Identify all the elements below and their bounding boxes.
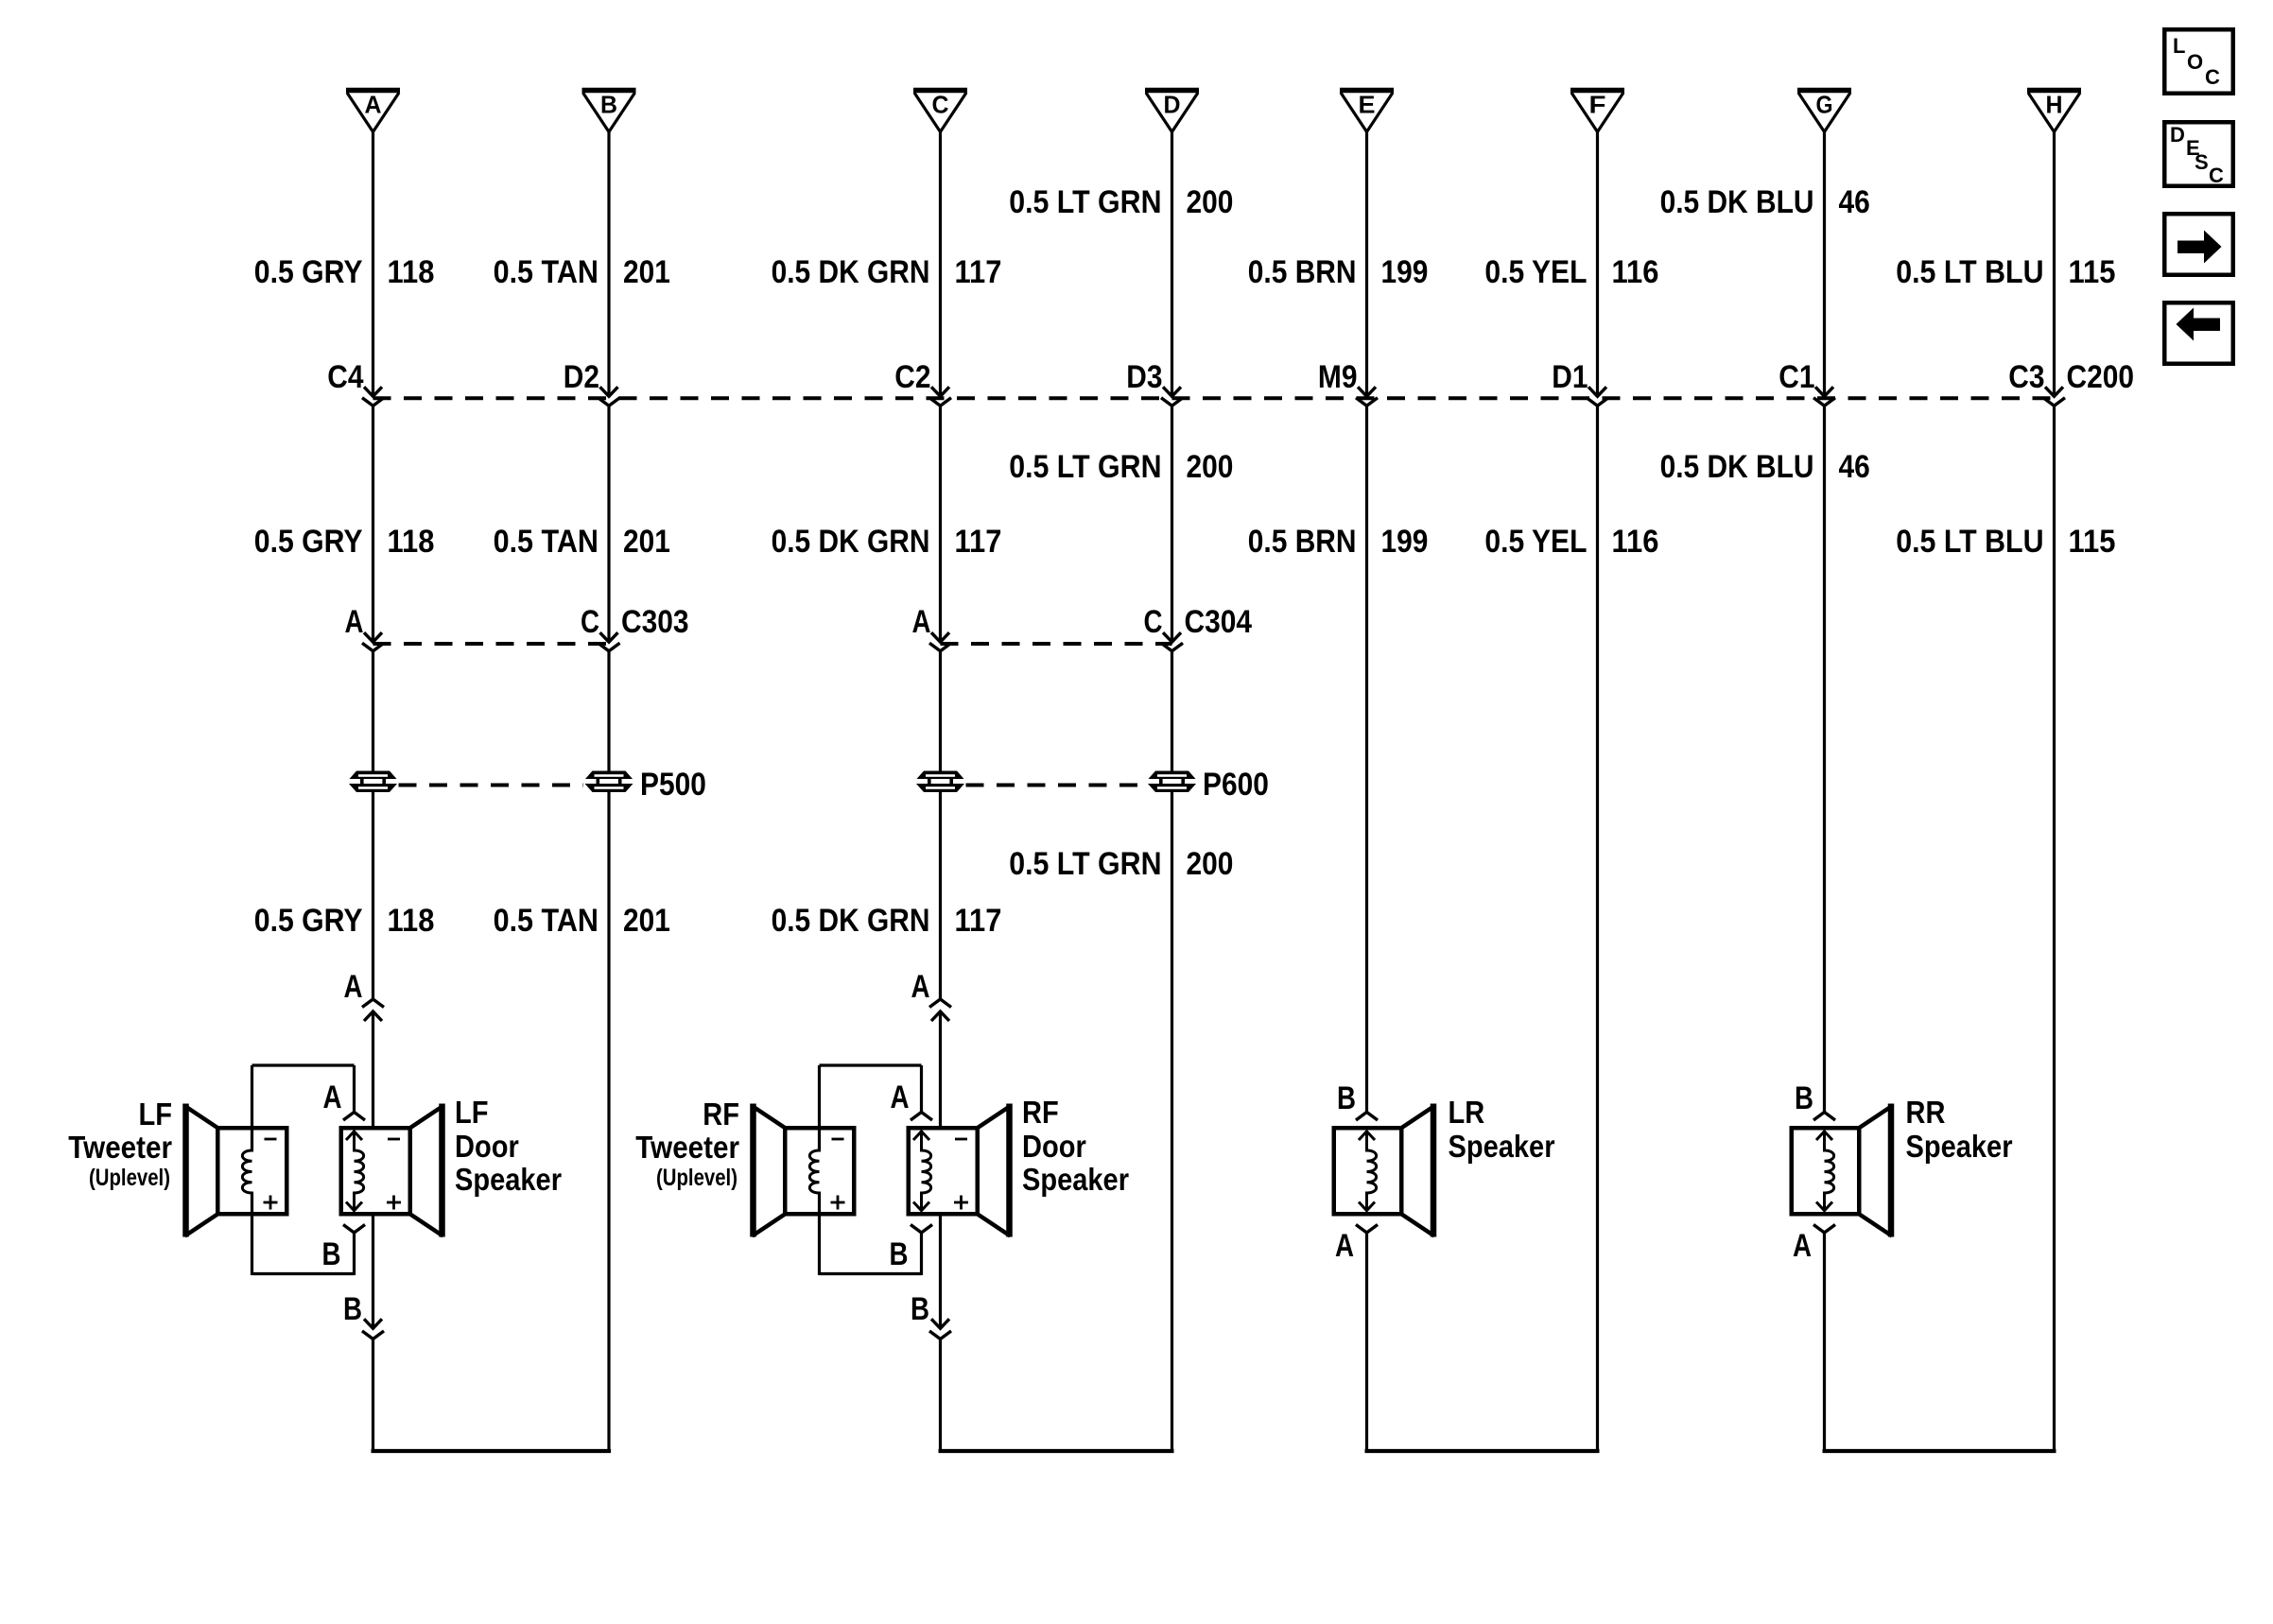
- svg-text:D1: D1: [1552, 359, 1588, 395]
- svg-text:B: B: [600, 91, 617, 119]
- wire RF main to bottom loop: [939, 1339, 942, 1454]
- svg-text:118: 118: [388, 903, 435, 939]
- connector chevron pin A at LF door speaker: [343, 1113, 365, 1121]
- wire H column segment C200 to bottom loop: [2053, 406, 2056, 1453]
- svg-text:A: A: [344, 969, 363, 1005]
- svg-text:A: A: [912, 604, 931, 640]
- svg-text:0.5 BRN: 0.5 BRN: [1248, 254, 1357, 290]
- polarity marks in RF tweeter: [832, 1138, 844, 1141]
- connector C304 dashed boundary line: [941, 642, 1172, 646]
- horn of LF tweeter: [185, 1106, 218, 1128]
- svg-text:201: 201: [623, 254, 670, 290]
- svg-text:LR: LR: [1449, 1095, 1485, 1130]
- grommet P500 on B column: [585, 771, 633, 793]
- svg-text:116: 116: [1612, 254, 1659, 290]
- svg-text:C304: C304: [1185, 604, 1253, 640]
- connector C200 dashed boundary line: [373, 396, 2055, 400]
- speaker LF tweeter box: [217, 1128, 286, 1214]
- svg-text:0.5 GRY: 0.5 GRY: [254, 254, 363, 290]
- wire RF tweeter loop bottom: [820, 1272, 922, 1275]
- svg-text:0.5 GRY: 0.5 GRY: [254, 903, 363, 939]
- svg-text:H: H: [2046, 91, 2063, 119]
- connector C200 terminal chevron on D column: [1161, 398, 1183, 406]
- svg-text:201: 201: [623, 903, 670, 939]
- polarity marks in RF door speaker: [955, 1138, 967, 1141]
- coil inside RF tweeter: [809, 1132, 819, 1212]
- connector chevron pin B at RR speaker: [1813, 1113, 1835, 1121]
- connector C30x terminal chevron on B column: [599, 643, 620, 651]
- wire A column segment grommet to inline connector A: [372, 792, 374, 999]
- connector chevron pin A at RR speaker: [1813, 1225, 1835, 1234]
- svg-text:F: F: [1589, 91, 1606, 119]
- svg-text:B: B: [343, 1291, 362, 1327]
- svg-text:RF: RF: [703, 1097, 739, 1132]
- wire C column upper segment: [939, 132, 942, 397]
- horn of RF door speaker: [978, 1106, 1011, 1128]
- svg-text:RR: RR: [1906, 1095, 1946, 1130]
- wire LF main to bottom loop: [372, 1339, 374, 1454]
- wire LF tweeter loop bottom stem: [353, 1233, 356, 1275]
- wire A column segment C200 to C303/C304: [372, 406, 374, 642]
- wire E column segment C200 to speaker: [1365, 406, 1368, 1112]
- wire D column segment C303 to grommet: [1171, 651, 1173, 771]
- wire G column segment C200 to speaker: [1823, 406, 1826, 1112]
- wire G column upper segment: [1823, 132, 1826, 397]
- wire D column segment grommet to bottom loop: [1171, 792, 1173, 1453]
- wire bottom return loop A-B: [372, 1449, 612, 1453]
- svg-text:200: 200: [1187, 184, 1234, 220]
- svg-text:RF: RF: [1022, 1095, 1059, 1130]
- wire D column upper segment: [1171, 132, 1173, 397]
- svg-text:0.5 BRN: 0.5 BRN: [1248, 524, 1357, 560]
- horn of LR speaker: [1402, 1106, 1435, 1128]
- connector triangle C (off-page reference): [913, 91, 967, 132]
- connector triangle E (off-page reference): [1340, 91, 1394, 132]
- connector C200 terminal chevron on E column: [1356, 398, 1378, 406]
- legend box DESC: [2164, 122, 2233, 187]
- connector triangle A (off-page reference): [346, 91, 400, 132]
- connector triangle H (off-page reference): [2027, 91, 2081, 132]
- svg-text:C200: C200: [2067, 359, 2135, 395]
- svg-text:0.5 DK BLU: 0.5 DK BLU: [1660, 184, 1814, 220]
- svg-text:LF: LF: [455, 1095, 489, 1130]
- connector C200 terminal arrow on A column: [364, 387, 382, 396]
- connector C200 terminal arrow on C column: [931, 387, 949, 396]
- svg-text:0.5 LT GRN: 0.5 LT GRN: [1009, 184, 1161, 220]
- connector C200 terminal chevron on H column: [2043, 398, 2065, 406]
- connector triangle F (off-page reference): [1570, 91, 1624, 132]
- connector triangle G (off-page reference): [1797, 91, 1851, 132]
- svg-text:C: C: [581, 604, 599, 640]
- svg-text:Door: Door: [1022, 1129, 1086, 1164]
- wire C column segment to speaker box: [939, 1011, 942, 1128]
- svg-text:C: C: [2209, 164, 2224, 187]
- svg-text:Speaker: Speaker: [1022, 1162, 1129, 1197]
- speaker RF door speaker box: [909, 1128, 978, 1214]
- legend box left-arrow: [2164, 302, 2233, 364]
- svg-text:115: 115: [2069, 254, 2116, 290]
- svg-text:0.5 GRY: 0.5 GRY: [254, 524, 363, 560]
- connector C200 terminal arrow on F column: [1588, 387, 1606, 396]
- svg-text:0.5 DK GRN: 0.5 DK GRN: [772, 524, 930, 560]
- horn of LF door speaker: [410, 1106, 443, 1128]
- svg-text:C: C: [932, 91, 949, 119]
- inline connector pin A break on A column: [344, 969, 385, 1021]
- connector chevron pin B at LF door speaker: [343, 1225, 365, 1234]
- svg-text:A: A: [345, 604, 364, 640]
- connector C200 terminal arrow on H column: [2045, 387, 2063, 396]
- svg-text:A: A: [1793, 1228, 1812, 1264]
- svg-text:0.5 YEL: 0.5 YEL: [1484, 524, 1587, 560]
- svg-text:0.5 LT BLU: 0.5 LT BLU: [1896, 254, 2043, 290]
- grommet P600 on D column: [1148, 771, 1196, 793]
- connector C200 terminal chevron on C column: [929, 398, 951, 406]
- svg-text:B: B: [911, 1291, 929, 1327]
- connector C30x terminal arrow on B column: [600, 632, 618, 642]
- connector C200 terminal arrow on E column: [1358, 387, 1376, 396]
- connector C200 terminal arrow on B column: [600, 387, 618, 396]
- svg-text:0.5 TAN: 0.5 TAN: [494, 524, 599, 560]
- coil inside LR speaker: [1367, 1132, 1377, 1212]
- connector C303 dashed boundary line: [373, 642, 610, 646]
- legend box right-arrow: [2164, 214, 2233, 275]
- connector C30x terminal chevron on A column: [362, 643, 384, 651]
- svg-text:(Uplevel): (Uplevel): [656, 1165, 737, 1191]
- connector triangle D (off-page reference): [1145, 91, 1199, 132]
- wire RR main to bottom loop: [1823, 1233, 1826, 1453]
- svg-text:0.5 YEL: 0.5 YEL: [1484, 254, 1587, 290]
- wire RF tweeter loop bottom stem: [920, 1233, 923, 1275]
- wire B column upper segment: [607, 132, 610, 397]
- connector C30x terminal arrow on C column: [931, 632, 949, 642]
- coil inside RR speaker: [1825, 1132, 1834, 1212]
- wire bottom return loop G-H: [1823, 1449, 2056, 1453]
- wire B column segment C200 to C303/C304: [607, 406, 610, 642]
- svg-text:O: O: [2187, 50, 2203, 74]
- wire LF tweeter loop left vertical: [251, 1065, 253, 1150]
- grommet on C column: [916, 771, 964, 793]
- wire B column segment grommet to bottom loop: [607, 792, 610, 1453]
- svg-text:Speaker: Speaker: [1449, 1129, 1555, 1164]
- svg-text:C3: C3: [2008, 359, 2044, 395]
- svg-text:L: L: [2173, 34, 2185, 58]
- coil inside RF door speaker: [922, 1132, 931, 1212]
- connector C30x terminal chevron on D column: [1161, 643, 1183, 651]
- wire B column segment C303 to grommet: [607, 651, 610, 771]
- svg-text:0.5 LT BLU: 0.5 LT BLU: [1896, 524, 2043, 560]
- wire C column segment C303 to grommet: [939, 651, 942, 771]
- svg-text:46: 46: [1839, 449, 1870, 485]
- svg-text:116: 116: [1612, 524, 1659, 560]
- svg-text:0.5 DK BLU: 0.5 DK BLU: [1660, 449, 1814, 485]
- wire bottom return loop C-D: [939, 1449, 1174, 1453]
- svg-text:C4: C4: [327, 359, 363, 395]
- wire RF tweeter loop top: [820, 1063, 922, 1066]
- svg-text:D2: D2: [564, 359, 599, 395]
- svg-text:117: 117: [955, 524, 1002, 560]
- coil inside LF tweeter: [242, 1132, 252, 1212]
- svg-text:(Uplevel): (Uplevel): [89, 1165, 170, 1191]
- svg-text:0.5 TAN: 0.5 TAN: [494, 254, 599, 290]
- grommet dashed tie line P600: [966, 784, 1147, 787]
- svg-text:117: 117: [955, 254, 1002, 290]
- svg-text:D: D: [1164, 91, 1181, 119]
- horn of RF tweeter: [753, 1106, 786, 1128]
- svg-text:A: A: [1335, 1228, 1354, 1264]
- svg-text:Tweeter: Tweeter: [635, 1130, 739, 1165]
- wire H column upper segment: [2053, 132, 2056, 397]
- wire RF tweeter loop right drop: [920, 1065, 923, 1113]
- connector C200 terminal chevron on F column: [1587, 398, 1608, 406]
- svg-text:Tweeter: Tweeter: [68, 1130, 172, 1165]
- svg-text:C2: C2: [894, 359, 930, 395]
- svg-text:C: C: [1144, 604, 1163, 640]
- connector C200 terminal chevron on B column: [599, 398, 620, 406]
- horn of RR speaker: [1860, 1106, 1893, 1128]
- wire F column segment C200 to bottom loop: [1596, 406, 1599, 1453]
- svg-text:A: A: [891, 1080, 910, 1115]
- legend box LOC: [2164, 29, 2233, 94]
- svg-text:B: B: [890, 1236, 909, 1272]
- wire C column segment C200 to C303/C304: [939, 406, 942, 642]
- wire A column segment to speaker box: [372, 1011, 374, 1128]
- svg-text:S: S: [2195, 150, 2209, 174]
- svg-text:117: 117: [955, 903, 1002, 939]
- svg-text:Door: Door: [455, 1129, 519, 1164]
- grommet on A column: [349, 771, 397, 793]
- wire LF tweeter loop bottom: [252, 1272, 355, 1275]
- svg-text:E: E: [1359, 91, 1376, 119]
- svg-text:P500: P500: [640, 767, 706, 803]
- connector triangle B (off-page reference): [582, 91, 636, 132]
- wire LR main to bottom loop: [1365, 1233, 1368, 1453]
- svg-text:199: 199: [1381, 254, 1429, 290]
- svg-text:199: 199: [1381, 524, 1429, 560]
- svg-text:A: A: [911, 969, 930, 1005]
- wire D column segment C200 to C303/C304: [1171, 406, 1173, 642]
- svg-text:200: 200: [1187, 449, 1234, 485]
- svg-text:0.5 TAN: 0.5 TAN: [494, 903, 599, 939]
- svg-text:C: C: [2205, 65, 2220, 89]
- svg-text:B: B: [1337, 1080, 1356, 1116]
- svg-text:115: 115: [2069, 524, 2116, 560]
- svg-text:0.5 DK GRN: 0.5 DK GRN: [772, 903, 930, 939]
- svg-text:118: 118: [388, 524, 435, 560]
- svg-text:C1: C1: [1778, 359, 1814, 395]
- speaker RF tweeter box: [785, 1128, 854, 1214]
- svg-text:B: B: [1795, 1080, 1813, 1116]
- connector C30x terminal chevron on C column: [929, 643, 951, 651]
- connector chevron pin B at RF door speaker: [911, 1225, 932, 1234]
- wire F column upper segment: [1596, 132, 1599, 397]
- svg-text:118: 118: [388, 254, 435, 290]
- svg-text:0.5 LT GRN: 0.5 LT GRN: [1009, 449, 1161, 485]
- svg-text:D: D: [2170, 123, 2185, 147]
- inline connector pin A break on C column: [911, 969, 952, 1021]
- connector C200 terminal chevron on G column: [1813, 398, 1835, 406]
- svg-text:B: B: [322, 1236, 341, 1272]
- connector C30x terminal arrow on A column: [364, 632, 382, 642]
- speaker LF door speaker box: [341, 1128, 410, 1214]
- wire A column segment C303 to grommet: [372, 651, 374, 771]
- svg-text:D3: D3: [1126, 359, 1162, 395]
- svg-text:201: 201: [623, 524, 670, 560]
- svg-text:0.5 DK GRN: 0.5 DK GRN: [772, 254, 930, 290]
- svg-text:G: G: [1816, 91, 1833, 119]
- polarity marks in LF tweeter: [265, 1138, 277, 1141]
- speaker LR box: [1334, 1128, 1402, 1214]
- svg-text:P600: P600: [1203, 767, 1269, 803]
- wire A column upper segment: [372, 132, 374, 397]
- grommet dashed tie line P500: [399, 784, 584, 787]
- svg-text:Speaker: Speaker: [455, 1162, 562, 1197]
- wire LF tweeter loop top: [252, 1063, 355, 1066]
- svg-text:0.5 LT GRN: 0.5 LT GRN: [1009, 846, 1161, 882]
- svg-text:M9: M9: [1318, 359, 1358, 395]
- connector chevron pin A at LR speaker: [1356, 1225, 1378, 1234]
- svg-text:C303: C303: [621, 604, 689, 640]
- inline connector pin B break below LF door speaker: [343, 1291, 384, 1339]
- wire RF main below box: [939, 1215, 942, 1329]
- svg-text:LF: LF: [139, 1097, 173, 1132]
- svg-text:46: 46: [1839, 184, 1870, 220]
- inline connector pin B break below RF door speaker: [911, 1291, 951, 1339]
- wire LF main below box: [372, 1215, 374, 1329]
- wire RF tweeter loop left vertical: [818, 1065, 821, 1150]
- wire bottom return loop E-F: [1365, 1449, 1600, 1453]
- wire LF tweeter loop right drop: [353, 1065, 356, 1113]
- connector C200 terminal arrow on D column: [1163, 387, 1181, 396]
- wire E column upper segment: [1365, 132, 1368, 397]
- svg-text:A: A: [323, 1080, 342, 1115]
- polarity marks in LF door speaker: [388, 1138, 400, 1141]
- svg-text:A: A: [365, 91, 382, 119]
- connector C200 terminal arrow on G column: [1815, 387, 1833, 396]
- svg-text:Speaker: Speaker: [1906, 1129, 2013, 1164]
- connector C30x terminal arrow on D column: [1163, 632, 1181, 642]
- coil inside LF door speaker: [355, 1132, 364, 1212]
- connector C200 terminal chevron on A column: [362, 398, 384, 406]
- wire C column segment grommet to inline connector A: [939, 792, 942, 999]
- connector chevron pin B at LR speaker: [1356, 1113, 1378, 1121]
- speaker RR box: [1792, 1128, 1860, 1214]
- connector chevron pin A at RF door speaker: [911, 1113, 932, 1121]
- svg-text:200: 200: [1187, 846, 1234, 882]
